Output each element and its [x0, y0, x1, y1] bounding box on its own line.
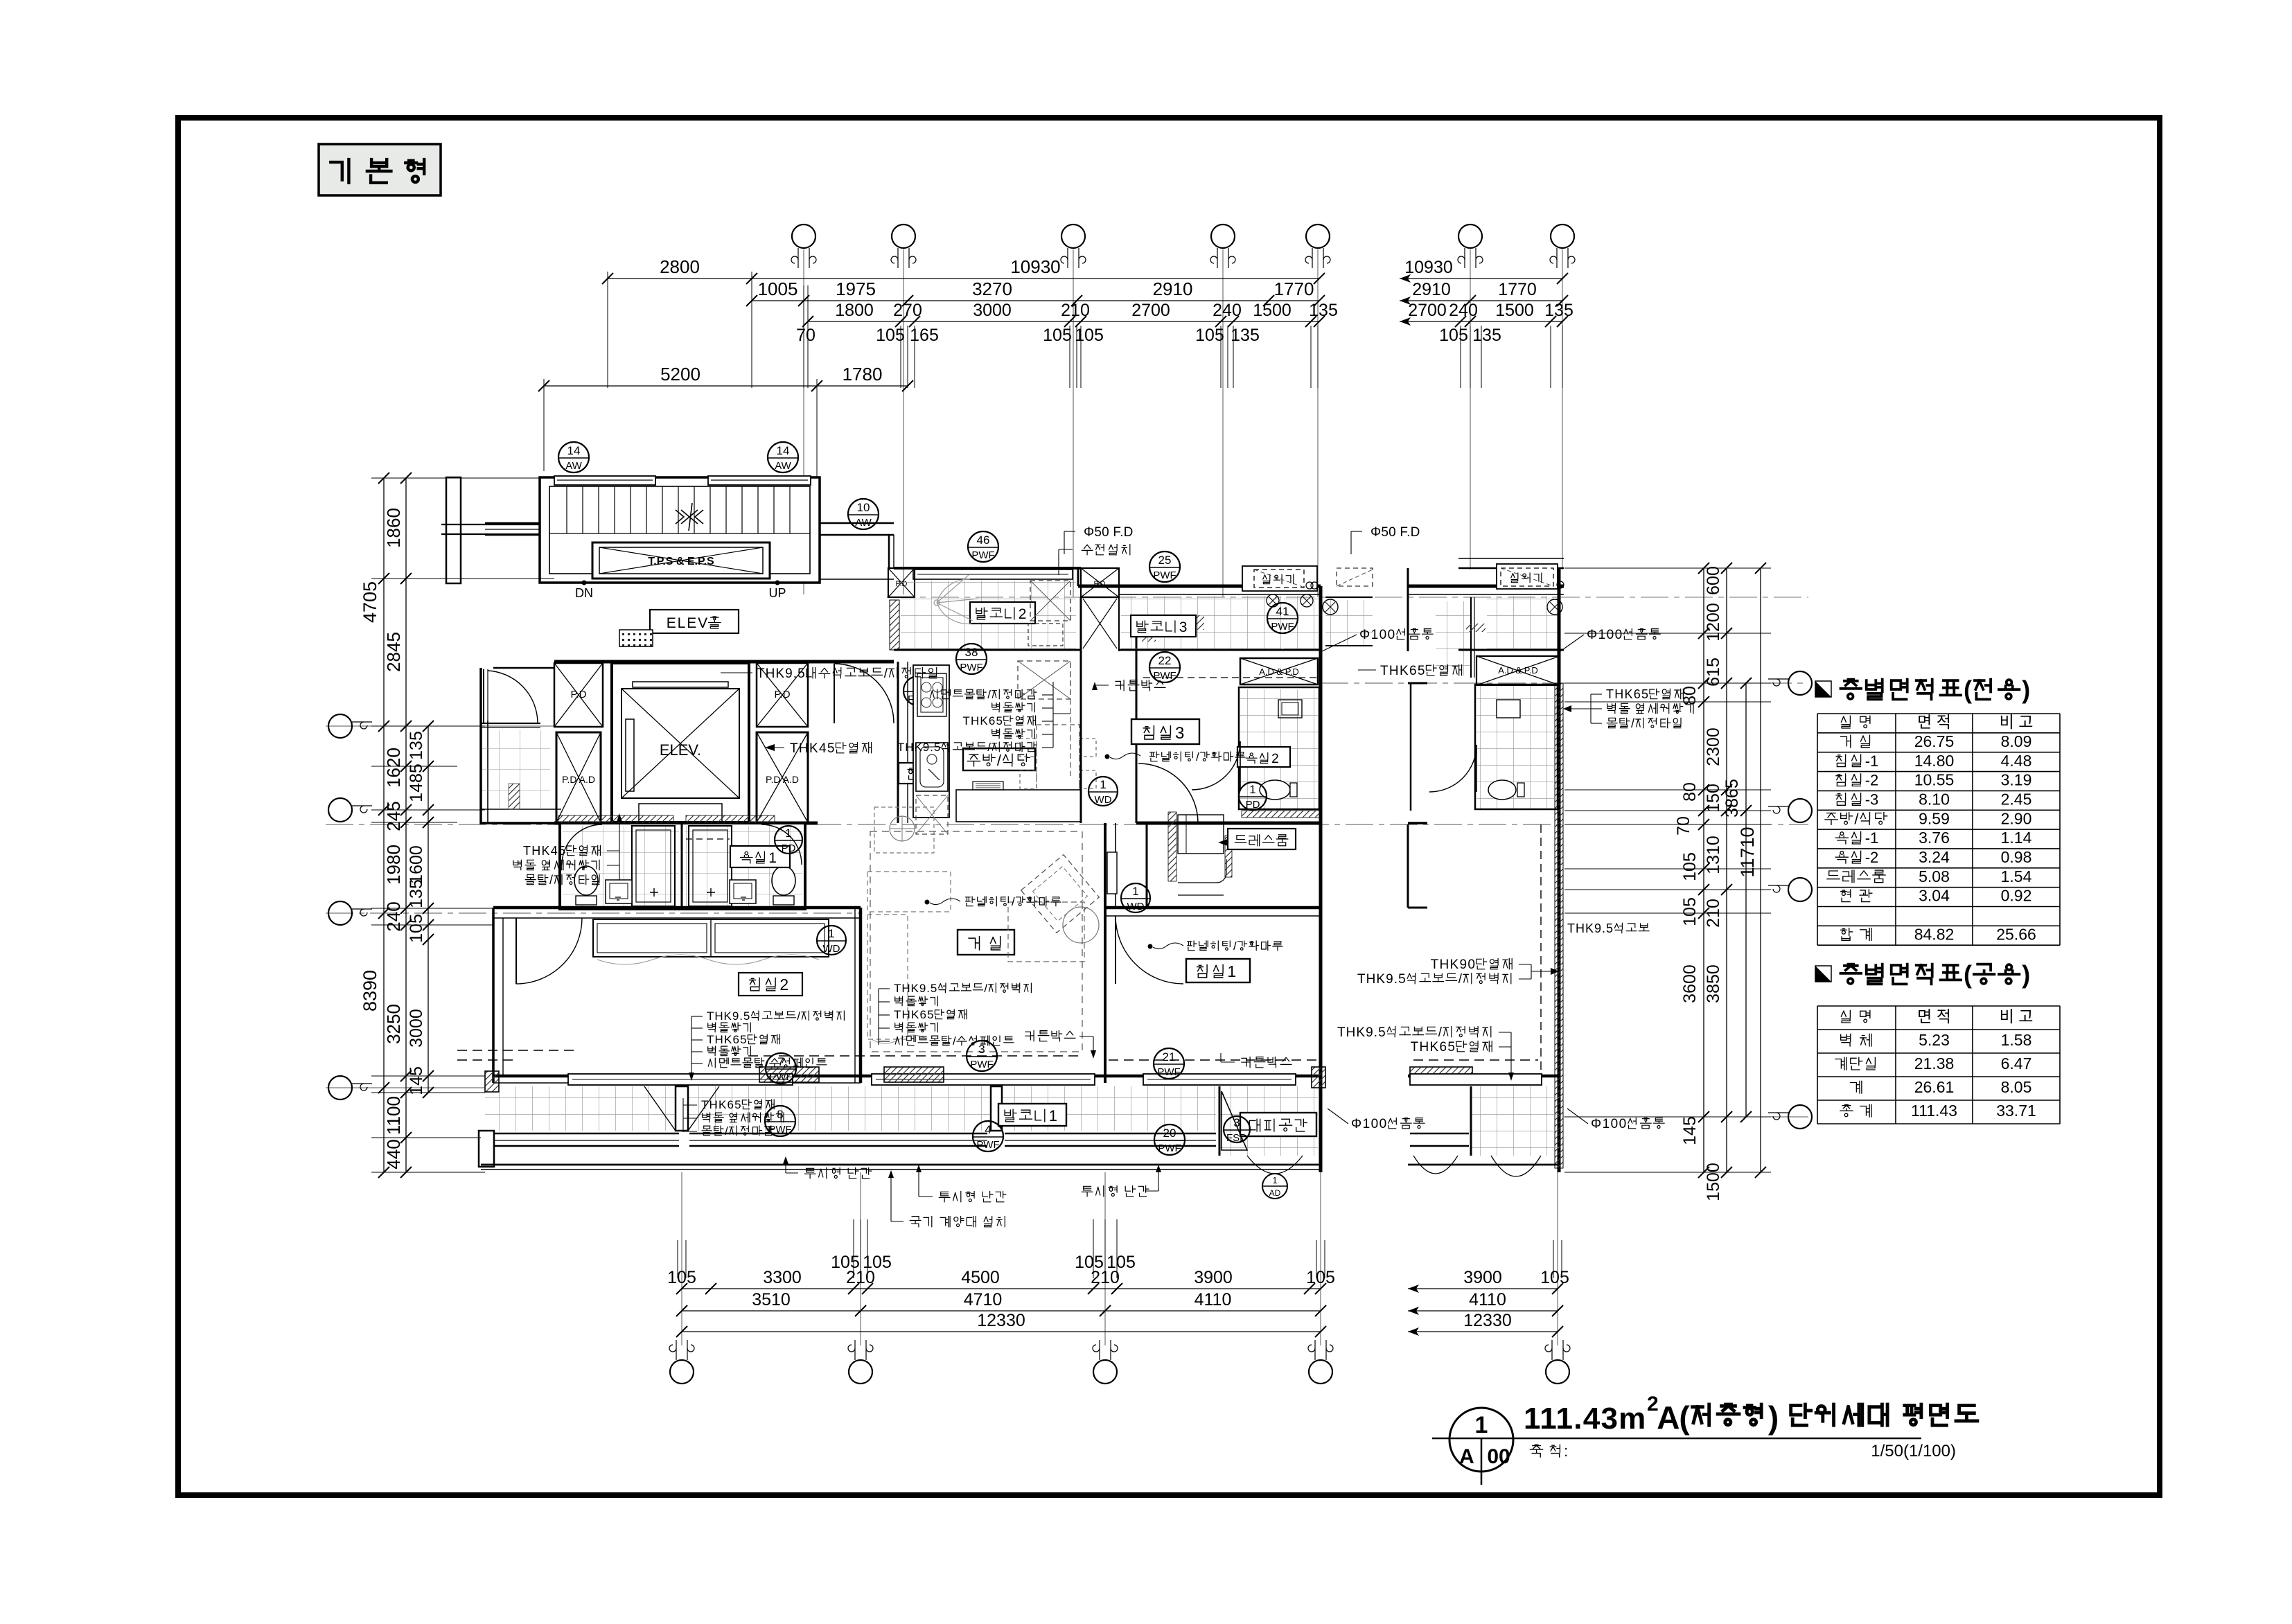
right unit mirrored balcony strip at 1913 — [1325, 600, 1373, 646]
svg-text:T.P.S & E.P.S: T.P.S & E.P.S — [648, 556, 714, 567]
svg-text:1770: 1770 — [1274, 279, 1314, 299]
left grid bubbles — [328, 714, 352, 738]
note 투시형 난간 right — [1082, 1186, 1117, 1197]
P.D A.D box lower-right — [757, 732, 808, 822]
svg-text:): ) — [2022, 676, 2030, 704]
bedroom1 label — [1186, 959, 1250, 982]
code circle 8/PWF — [765, 1106, 795, 1136]
svg-text:P.D A.D: P.D A.D — [766, 774, 799, 785]
svg-text:1/50(1/100): 1/50(1/100) — [1871, 1442, 1956, 1460]
svg-text:105: 105 — [1043, 326, 1072, 345]
balcony3 inner wall — [1119, 649, 1321, 651]
svg-text:41: 41 — [1276, 605, 1289, 618]
svg-text:135: 135 — [1472, 326, 1501, 345]
stair right connector — [820, 522, 894, 524]
svg-text:THK65: THK65 — [962, 714, 1003, 727]
bathroom2 label — [1237, 747, 1290, 767]
right unit AD PD — [1476, 656, 1560, 685]
svg-text:10: 10 — [857, 501, 870, 514]
svg-text::: : — [1564, 1442, 1568, 1460]
code circle 41/PWF — [1267, 603, 1298, 633]
sheet border frame — [178, 118, 2160, 1495]
svg-text:1: 1 — [1272, 1175, 1277, 1185]
left dim chains — [383, 478, 385, 1172]
left unit outdoor unit niche — [1242, 566, 1317, 591]
svg-text:4705: 4705 — [360, 581, 380, 623]
svg-text:THK9.5: THK9.5 — [1357, 972, 1406, 987]
area table (common) grid — [1817, 1005, 2060, 1007]
svg-text:(: ( — [1964, 960, 1972, 989]
escape space 대피공간 — [1219, 1086, 1318, 1156]
svg-text:3270: 3270 — [972, 279, 1012, 299]
kitchen bottom counter — [956, 790, 1081, 822]
svg-text:84.82: 84.82 — [1914, 925, 1955, 943]
svg-text:A(: A( — [1657, 1400, 1690, 1436]
top dim row 2: 1005 1975 3270 2910 1770 — [752, 300, 1319, 301]
area table (exclusive) rows — [1841, 716, 1850, 728]
svg-text:WD: WD — [823, 943, 840, 955]
svg-text:/: / — [766, 1057, 769, 1070]
svg-text:25.66: 25.66 — [1996, 925, 2036, 943]
sink left — [606, 880, 632, 903]
svg-text:4: 4 — [985, 1123, 991, 1136]
svg-text:PWF: PWF — [970, 1059, 993, 1070]
title box 기본형 — [319, 144, 441, 195]
svg-text:2.45: 2.45 — [2001, 790, 2032, 808]
right unit mid tile strip — [1436, 601, 1472, 676]
area table (exclusive) title — [1815, 681, 1831, 697]
svg-text:600: 600 — [1704, 566, 1723, 595]
svg-text:0.98: 0.98 — [2001, 848, 2032, 866]
svg-text:111.43m: 111.43m — [1524, 1402, 1646, 1436]
right unit right wall — [1558, 568, 1561, 1172]
balcony divider wall left — [676, 1086, 688, 1131]
svg-text:3000: 3000 — [973, 301, 1012, 320]
balcony1 label — [998, 1104, 1066, 1126]
top dim row 3 — [808, 321, 1319, 322]
balcony3 label — [1131, 615, 1196, 637]
note 커튼박스 living — [1025, 1031, 1075, 1041]
floor heating dashed zone — [870, 831, 1082, 1052]
svg-text:/: / — [1196, 750, 1199, 764]
svg-text:Φ100: Φ100 — [1359, 628, 1395, 642]
svg-text:THK65: THK65 — [1380, 664, 1425, 678]
svg-text:10930: 10930 — [1010, 256, 1060, 277]
svg-text:A.D & P.D: A.D & P.D — [1498, 665, 1538, 676]
svg-text:1200: 1200 — [1704, 603, 1723, 642]
svg-text:PWF: PWF — [1153, 570, 1176, 581]
svg-text:8.09: 8.09 — [2001, 732, 2032, 750]
svg-text:THK9.5: THK9.5 — [707, 1009, 750, 1023]
corridor walls — [1104, 823, 1107, 1083]
svg-text:/: / — [1631, 716, 1634, 730]
left extension horizontals — [371, 477, 547, 479]
svg-text:00: 00 — [1487, 1445, 1510, 1468]
svg-text:1500: 1500 — [1704, 1163, 1723, 1201]
svg-text:1975: 1975 — [836, 279, 876, 299]
bedroom2 door arc — [515, 918, 517, 984]
code circle 22/PWF — [1149, 652, 1180, 682]
svg-text:A: A — [1459, 1445, 1474, 1468]
svg-text:3250: 3250 — [383, 1004, 404, 1044]
bottom dim row 3 — [682, 1331, 1321, 1332]
P.D box upper-left — [554, 663, 603, 727]
balcony2 label — [970, 602, 1035, 624]
stair dim row 5200 1780 — [544, 385, 908, 387]
title block circle 1/A00 — [1449, 1408, 1513, 1472]
core top wall — [554, 660, 894, 664]
bedroom1 top wall — [1105, 906, 1321, 910]
elevator shaft — [612, 663, 749, 822]
bathroom wall hatch bands — [558, 815, 673, 823]
balcony2 outer top wall (higher) — [894, 567, 1081, 570]
svg-text:2700: 2700 — [1131, 301, 1170, 320]
svg-text:/: / — [1438, 1025, 1443, 1040]
code circle 4/PWF — [973, 1121, 1003, 1151]
svg-text:12330: 12330 — [977, 1311, 1025, 1330]
svg-text:THK65: THK65 — [1606, 687, 1648, 701]
bathroom2 toilet — [1260, 780, 1290, 800]
svg-text:/: / — [987, 688, 991, 701]
note 판넬히팅 bedroom1 — [1188, 941, 1231, 951]
stair treads — [566, 486, 567, 533]
svg-text:1: 1 — [1475, 1412, 1488, 1438]
svg-text:2: 2 — [779, 976, 788, 994]
svg-text:AD: AD — [1269, 1188, 1281, 1198]
stair direction arrows — [676, 503, 703, 531]
right dim chains — [1703, 568, 1704, 1172]
svg-text:5200: 5200 — [660, 364, 700, 385]
entrance door arc — [821, 660, 894, 663]
right unit corridor stubs — [1407, 824, 1409, 908]
right unit bottom wall — [1408, 1075, 1559, 1078]
balcony2 inner wall — [894, 649, 1081, 651]
svg-text:1860: 1860 — [383, 508, 404, 548]
note 판넬히팅 bottom-left — [966, 897, 1009, 906]
svg-text:UP: UP — [768, 586, 786, 600]
svg-text:/: / — [1458, 972, 1463, 987]
svg-text:THK9.5: THK9.5 — [894, 982, 937, 995]
bathroom1 door arc left — [562, 824, 602, 865]
WD circle bedroom2 — [817, 926, 846, 955]
grid centerlines vertical bottom — [681, 1172, 682, 1345]
svg-text:3: 3 — [1175, 724, 1184, 743]
PD circle bathroom1 — [775, 826, 802, 854]
svg-text:/: / — [953, 1034, 956, 1048]
svg-text:1: 1 — [785, 827, 791, 840]
svg-text:THK65: THK65 — [1411, 1040, 1455, 1054]
svg-text:1770: 1770 — [1498, 280, 1537, 299]
dressroom walls — [1146, 823, 1148, 908]
svg-text:4110: 4110 — [1469, 1290, 1506, 1309]
svg-text:P.D: P.D — [1094, 580, 1106, 588]
svg-text:/: / — [725, 1124, 728, 1138]
svg-text:THK45: THK45 — [523, 844, 565, 858]
bedroom2 left wall — [492, 908, 495, 1083]
svg-text:P.D: P.D — [774, 689, 790, 700]
svg-text:14.80: 14.80 — [1914, 752, 1955, 770]
code circle 46/PWF — [968, 531, 998, 562]
right extension horizontals — [1564, 567, 1771, 569]
bathtub left — [632, 826, 675, 906]
svg-text:8: 8 — [777, 1108, 783, 1121]
svg-text:-3: -3 — [1865, 791, 1879, 809]
right unit escape tiles — [1471, 1086, 1559, 1156]
svg-text:25: 25 — [1158, 554, 1172, 567]
P.D A.D box lower-left — [556, 732, 601, 822]
svg-text:-2: -2 — [1865, 849, 1879, 866]
svg-text:1.14: 1.14 — [2001, 829, 2032, 847]
bedroom2 label — [739, 973, 802, 996]
svg-text:PWF: PWF — [1153, 670, 1176, 682]
svg-text:3000: 3000 — [407, 1009, 426, 1048]
entrance label 현관 — [899, 763, 947, 784]
svg-text:THK90: THK90 — [1431, 957, 1475, 972]
right unit fan right — [1547, 599, 1562, 615]
svg-text:4110: 4110 — [1195, 1290, 1232, 1309]
svg-text:21: 21 — [1163, 1050, 1176, 1063]
svg-text:Φ50 F.D: Φ50 F.D — [1084, 525, 1133, 540]
svg-text:80: 80 — [1680, 782, 1700, 802]
svg-text:Φ100: Φ100 — [1351, 1117, 1386, 1131]
svg-text:105: 105 — [407, 914, 426, 943]
AD circle below — [1262, 1174, 1287, 1199]
svg-text:3: 3 — [1233, 1116, 1240, 1129]
AD PD box unit right — [1319, 586, 1323, 1172]
svg-text:21.38: 21.38 — [1914, 1054, 1955, 1073]
bathtub right — [689, 826, 732, 906]
svg-text:1.54: 1.54 — [2001, 867, 2032, 885]
grid centerlines vertical top — [803, 249, 804, 594]
right unit lower window band — [1410, 1133, 1469, 1135]
svg-text:AW: AW — [775, 460, 791, 472]
code circle 3/PWF — [967, 1041, 997, 1071]
svg-text:/: / — [1012, 895, 1015, 908]
note 투시형 난간 left — [804, 1168, 840, 1179]
stair left wing window — [485, 522, 540, 524]
svg-text:THK65: THK65 — [701, 1098, 741, 1111]
svg-text:면 적: 면 적 — [1917, 713, 1951, 731]
stair block outer walls — [540, 477, 820, 583]
TV cabinet dashed — [1008, 902, 1084, 962]
svg-text:): ) — [2022, 960, 2030, 989]
svg-text:3865: 3865 — [1722, 779, 1742, 818]
note 커튼박스 upper — [1116, 680, 1165, 691]
svg-text:3850: 3850 — [1704, 964, 1723, 1003]
right unit walls lower — [1408, 822, 1427, 824]
svg-text:-1: -1 — [1865, 752, 1879, 770]
bottom right unit dims — [1408, 1288, 1558, 1289]
svg-text:WD: WD — [1127, 901, 1145, 912]
svg-text:105: 105 — [1306, 1268, 1335, 1287]
svg-text:2: 2 — [1019, 606, 1027, 622]
svg-text:비 고: 비 고 — [2000, 713, 2034, 731]
svg-text:80: 80 — [1680, 686, 1700, 705]
bedroom1 door arc — [1115, 916, 1116, 984]
svg-text:WD: WD — [1095, 794, 1112, 806]
right unit outdoor unit niche — [1458, 567, 1564, 570]
balcony2 left PD box — [888, 568, 915, 597]
svg-text:PWF: PWF — [976, 1139, 999, 1151]
svg-text:111.43: 111.43 — [1911, 1102, 1957, 1120]
svg-text:Φ100: Φ100 — [1587, 628, 1622, 642]
floor mat dotted block — [619, 630, 653, 646]
kitchen stove — [917, 673, 946, 716]
svg-text:240: 240 — [1213, 301, 1242, 320]
dryer dashed box balcony2 — [1030, 581, 1070, 621]
svg-text:DN: DN — [575, 586, 593, 600]
stair left wing column — [446, 477, 461, 583]
svg-text:/: / — [797, 1009, 800, 1023]
svg-text:PWF: PWF — [971, 549, 994, 561]
svg-text:PD: PD — [1246, 799, 1260, 811]
FSD circle — [903, 676, 933, 705]
dressroom hatch jamb — [1168, 812, 1176, 881]
svg-text:1005: 1005 — [758, 279, 798, 299]
bedroom3 door arc — [1136, 755, 1138, 823]
svg-text:70: 70 — [796, 326, 816, 345]
code circle 20/PWF — [1154, 1124, 1185, 1155]
svg-text:1800: 1800 — [835, 301, 874, 320]
code circle 10/AW — [848, 499, 879, 529]
svg-text:3.76: 3.76 — [1919, 829, 1950, 847]
tub drain marks — [650, 888, 715, 897]
right unit balcony tiles — [1487, 596, 1560, 650]
svg-text:1500: 1500 — [1253, 301, 1292, 320]
svg-text:2910: 2910 — [1153, 279, 1193, 299]
svg-text:2910: 2910 — [1412, 280, 1451, 299]
svg-text:12330: 12330 — [1463, 1311, 1512, 1330]
svg-text:1485: 1485 — [407, 764, 426, 802]
svg-text:240: 240 — [383, 901, 404, 931]
right unit top dims — [1400, 278, 1562, 279]
ELEV hall label — [650, 610, 739, 633]
stair window top-left AW — [554, 476, 655, 485]
grid centerlines horizontal — [326, 824, 1808, 825]
right unit bathroom door — [1429, 745, 1476, 792]
svg-text:38: 38 — [965, 646, 978, 659]
svg-text:135: 135 — [407, 879, 426, 908]
svg-text:3: 3 — [1179, 619, 1188, 635]
svg-text:210: 210 — [1704, 899, 1723, 928]
washer fan arcs balcony2 — [937, 575, 978, 624]
svg-text:AW: AW — [855, 517, 872, 529]
svg-text:105: 105 — [1540, 1268, 1569, 1287]
svg-text:1: 1 — [1227, 962, 1236, 980]
code circle 25/PWF — [1149, 551, 1180, 582]
svg-text:THK9.5: THK9.5 — [1567, 921, 1613, 935]
code circle 14/AW left — [558, 442, 589, 473]
bathroom2 bottom hatch — [1242, 811, 1319, 818]
svg-text:/: / — [987, 741, 991, 754]
svg-text:1.58: 1.58 — [2001, 1031, 2032, 1049]
balcony2 tiles — [901, 581, 1076, 650]
svg-text:105: 105 — [1195, 326, 1224, 345]
code circle 14/AW right — [768, 442, 798, 473]
svg-text:8390: 8390 — [360, 970, 380, 1012]
svg-text:/: / — [549, 873, 553, 887]
svg-text:5.08: 5.08 — [1919, 867, 1950, 885]
svg-text:2845: 2845 — [383, 632, 404, 672]
WD circle bedroom3 — [1088, 777, 1118, 806]
svg-text:33.71: 33.71 — [1996, 1102, 2036, 1120]
curtain dashed lines — [748, 1055, 1081, 1057]
bathroom1 label — [730, 846, 790, 867]
left wing door arc — [493, 667, 554, 669]
svg-text:105: 105 — [1680, 897, 1700, 926]
svg-text:70: 70 — [1674, 816, 1693, 836]
svg-text:615: 615 — [1704, 657, 1723, 687]
svg-text:PWF: PWF — [1157, 1066, 1180, 1078]
svg-text:PWF: PWF — [1158, 1142, 1181, 1154]
svg-text:135: 135 — [1309, 301, 1338, 320]
svg-text:1: 1 — [1100, 778, 1106, 791]
svg-text:THK9.5: THK9.5 — [897, 741, 940, 754]
svg-text:ELEV.: ELEV. — [660, 741, 701, 759]
balcony3 fans — [1267, 594, 1279, 607]
WD circle bedroom1 — [1121, 883, 1150, 912]
code circle 21/PWF — [1154, 1048, 1184, 1079]
svg-text:비 고: 비 고 — [2000, 1007, 2034, 1025]
svg-text:1620: 1620 — [383, 748, 404, 788]
living room label — [958, 930, 1014, 955]
note 국기 계양대 설치 — [910, 1217, 932, 1227]
svg-text:/: / — [997, 752, 1002, 769]
bedroom2 window — [568, 1074, 793, 1085]
svg-text:P.D A.D: P.D A.D — [562, 774, 595, 785]
right unit bathroom fixtures — [1488, 780, 1516, 800]
ladder diagonal — [1083, 599, 1117, 648]
svg-text:3.24: 3.24 — [1919, 848, 1950, 866]
svg-text:Φ100: Φ100 — [1591, 1117, 1626, 1131]
sofa dashed — [867, 872, 951, 912]
svg-text:2.90: 2.90 — [2001, 809, 2032, 827]
bottom extension verticals — [853, 1219, 854, 1278]
balcony3 outer top wall — [1078, 585, 1321, 588]
bedroom2 top wall — [493, 906, 861, 910]
svg-text:1100: 1100 — [383, 1096, 404, 1135]
svg-text:3900: 3900 — [1194, 1268, 1233, 1287]
svg-text:THK45: THK45 — [790, 741, 834, 756]
svg-text:2800: 2800 — [660, 256, 700, 277]
balcony3 hatch bits — [1188, 615, 1204, 630]
bathroom1 outer walls — [560, 823, 805, 909]
svg-text:-1: -1 — [1865, 829, 1879, 847]
hatched wall pieces — [759, 1067, 819, 1082]
left wing outer wall — [479, 668, 482, 824]
refrigerator dashed — [916, 795, 948, 834]
svg-text:240: 240 — [1449, 301, 1478, 320]
svg-text:1: 1 — [828, 927, 834, 940]
bathroom2 sink — [1278, 700, 1302, 718]
PD circle bathroom2 — [1239, 782, 1267, 810]
bedroom3 label — [1131, 719, 1199, 744]
upper cabinet dashed — [1018, 661, 1070, 699]
svg-text:135: 135 — [407, 731, 426, 760]
svg-text:8.05: 8.05 — [2001, 1078, 2032, 1096]
svg-text:22: 22 — [1158, 654, 1172, 667]
svg-text:1600: 1600 — [407, 845, 426, 884]
bathroom1 tiles left — [563, 826, 679, 906]
svg-text:1310: 1310 — [1704, 836, 1723, 874]
toilet left — [574, 866, 598, 895]
right unit bathroom tiles — [1476, 686, 1556, 809]
living window — [872, 1074, 1095, 1085]
balcony sill windows — [485, 1133, 679, 1135]
P.D box upper-right — [757, 663, 808, 727]
PD column between balconies — [1081, 568, 1119, 597]
svg-text:3600: 3600 — [1680, 964, 1700, 1003]
